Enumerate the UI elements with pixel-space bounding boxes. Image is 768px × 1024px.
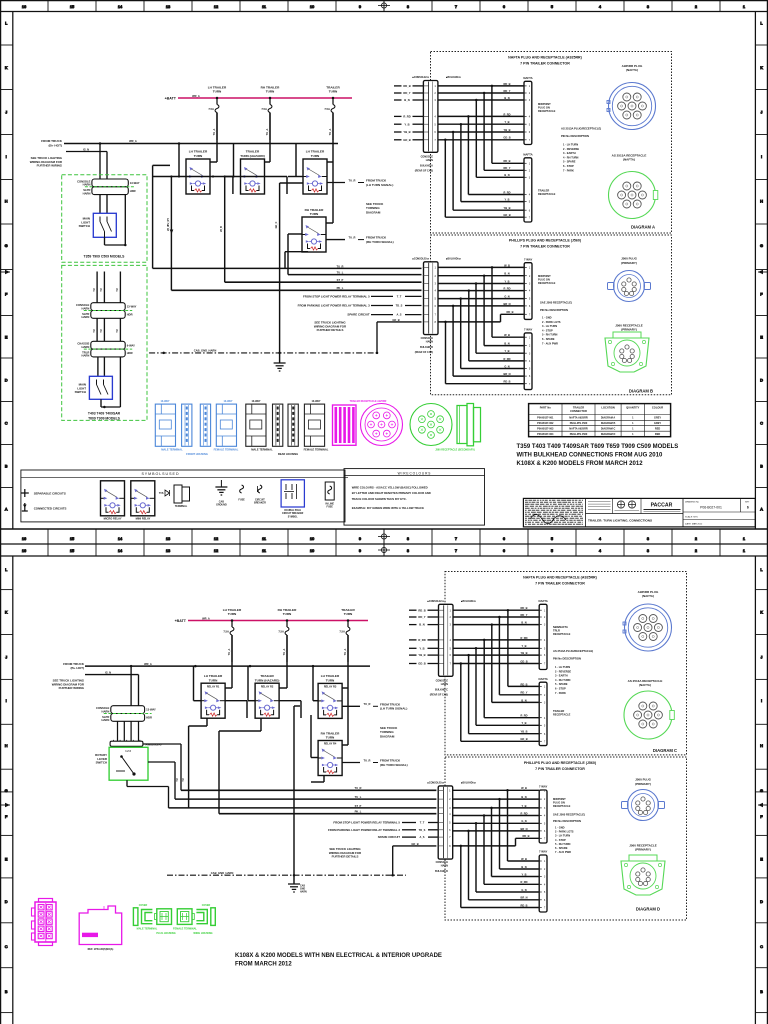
wire s2 bus TU_L [175, 795, 436, 799]
svg-text:R_RD: R_RD [503, 357, 510, 361]
svg-text:PIN No DESCRIPTION: PIN No DESCRIPTION [553, 819, 581, 823]
svg-text:TURN: TURN [228, 612, 237, 616]
wire stub into bulkhead C pin6 [409, 653, 439, 657]
svg-text:CAB_GND_HARN: CAB_GND_HARN [211, 871, 234, 875]
svg-text:A: A [760, 507, 763, 512]
svg-text:SPARE CIRCUIT: SPARE CIRCUIT [347, 313, 370, 317]
connector NAFTA receptacle strip [523, 152, 533, 222]
connector symbols 13way black male [246, 400, 283, 446]
svg-text:TURN (HAZARD): TURN (HAZARD) [255, 678, 280, 682]
fuse F5 7.5A [278, 621, 289, 663]
svg-text:R_RD: R_RD [503, 112, 510, 116]
svg-text:TRACE COLOUR SHOWN THUS R/Y: TRACE COLOUR SHOWN THUS R/Y ETC. [352, 497, 407, 501]
enclosure PHILLIPS connector diagram B [431, 235, 672, 395]
svg-text:7.5A: 7.5A [223, 630, 229, 634]
note NBN receptacle C [553, 625, 571, 636]
svg-text:1: 1 [743, 4, 745, 9]
svg-text:ST_P: ST_P [337, 278, 344, 282]
svg-text:W_B: W_B [521, 857, 527, 861]
svg-text:BR_N: BR_N [520, 827, 527, 831]
svg-text:FURTHER DETAILS: FURTHER DETAILS [317, 328, 344, 332]
node label s2 bus1 [223, 608, 242, 616]
wire relay K4 output [326, 236, 394, 244]
svg-text:TRAILER: TURN LIGHTING, CONNEC: TRAILER: TURN LIGHTING, CONNECTIONS [588, 519, 652, 523]
svg-text:R_RD: R_RD [520, 636, 527, 640]
svg-text:PK_L: PK_L [337, 286, 344, 290]
svg-text:16: 16 [22, 548, 26, 553]
svg-text:2: 2 [695, 548, 697, 553]
svg-text:QUANTITY: QUANTITY [626, 406, 640, 410]
svg-text:E: E [5, 335, 8, 340]
svg-text:15: 15 [70, 548, 74, 553]
svg-text:3 - LH TURN: 3 - LH TURN [542, 324, 557, 328]
svg-text:HDR: HDR [130, 189, 136, 193]
svg-text:CAB: CAB [300, 885, 305, 888]
legend fuse [238, 485, 245, 502]
svg-text:RELAY R1: RELAY R1 [207, 684, 220, 688]
svg-text:DIAGRAM B: DIAGRAM B [629, 389, 653, 394]
svg-text:■BULKHD/xx: ■BULKHD/xx [446, 258, 462, 261]
svg-text:RD_Y: RD_Y [521, 613, 528, 617]
svg-text:FEMALE TERMINAL: FEMALE TERMINAL [304, 448, 329, 452]
svg-text:WING HOUSING: WING HOUSING [193, 932, 212, 935]
connector bulkhead D [437, 786, 452, 859]
wire bus PK_L [171, 286, 421, 290]
svg-text:BR_N: BR_N [503, 302, 510, 306]
svg-text:TERMINAL: TERMINAL [175, 505, 188, 508]
svg-text:16: 16 [22, 4, 26, 9]
svg-text:R_RD: R_RD [520, 811, 527, 815]
svg-text:13-WAY: 13-WAY [146, 708, 156, 712]
svg-text:RED: RED [655, 433, 660, 436]
svg-text:HARN: HARN [102, 718, 110, 722]
svg-text:28_B: 28_B [220, 226, 223, 232]
wire stub into bulkhead A pin2 [394, 91, 423, 95]
svg-text:TURN: TURN [326, 678, 335, 682]
svg-text:DATE: MAR 2012: DATE: MAR 2012 [685, 523, 703, 526]
svg-text:(NAFTA): (NAFTA) [626, 68, 638, 72]
svg-text:FEMALE TERMINAL: FEMALE TERMINAL [173, 928, 197, 931]
svg-text:DIAGRAM: DIAGRAM [380, 734, 395, 738]
svg-text:4 - RH TURN: 4 - RH TURN [563, 155, 579, 159]
connector NAFTA plug strip [523, 76, 533, 145]
svg-text:■CONSOLE/xx: ■CONSOLE/xx [427, 782, 444, 785]
svg-text:HARN: HARN [82, 315, 90, 319]
svg-text:RELAY R3: RELAY R3 [324, 685, 337, 689]
svg-text:PLUG ON: PLUG ON [538, 278, 550, 282]
svg-text:■CONSOLE/xx: ■CONSOLE/xx [412, 76, 429, 79]
svg-text:T359 T403 T409 T409SAR T609 T6: T359 T403 T409 T409SAR T609 T659 T909 C5… [517, 444, 679, 450]
svg-text:3 - LH TURN: 3 - LH TURN [555, 834, 570, 838]
relay K7 LH TRAILER TURN [318, 674, 342, 718]
svg-text:TU_A: TU_A [328, 128, 332, 135]
svg-text:5 - RH TURN: 5 - RH TURN [542, 333, 558, 337]
wires header to switch2 [98, 357, 121, 407]
relay K4 RH TRAILER TURN [302, 208, 326, 252]
svg-text:GD_B: GD_B [403, 138, 411, 142]
svg-text:Y_B: Y_B [504, 279, 509, 283]
note truck lighting sheet1 [30, 156, 63, 168]
svg-text:G: G [5, 788, 8, 793]
legend circuit breaker [254, 485, 266, 505]
svg-text:RECEPTACLE: RECEPTACLE [538, 192, 556, 196]
svg-text:TRAILER: TRAILER [538, 189, 549, 193]
wires header to light switch [100, 195, 125, 245]
svg-text:FROM MARCH 2012: FROM MARCH 2012 [235, 962, 292, 968]
svg-text:IG_N: IG_N [83, 147, 89, 151]
svg-text:A_S: A_S [396, 313, 401, 317]
svg-text:HARN: HARN [102, 709, 110, 713]
svg-text:FROM STOP LIGHT POWER RELAY TE: FROM STOP LIGHT POWER RELAY TERMINAL 5 [333, 821, 400, 825]
svg-text:I: I [6, 154, 7, 159]
svg-text:GD_C: GD_C [275, 221, 278, 228]
svg-text:NAFTA A925RR: NAFTA A925RR [569, 417, 588, 420]
svg-text:R_RD: R_RD [503, 190, 510, 194]
svg-text:HARN: HARN [83, 183, 91, 187]
wire stub A_S [347, 313, 421, 317]
svg-text:B_N: B_N [404, 98, 409, 102]
svg-text:RD_B: RD_B [522, 834, 529, 838]
wire stub into bulkhead C pin5 [409, 646, 439, 650]
svg-text:MINI RELAY: MINI RELAY [136, 516, 151, 520]
svg-text:7.5A: 7.5A [261, 107, 267, 111]
legend diode [159, 490, 170, 496]
svg-text:RD_Y: RD_Y [403, 91, 410, 95]
svg-text:S Y M B O L S U S E D: S Y M B O L S U S E D [141, 472, 178, 476]
net +BATT bus sheet1 [165, 94, 352, 101]
svg-text:BR_N: BR_N [520, 896, 527, 900]
connector green cover right [196, 904, 215, 926]
connector bulkhead A labels [412, 76, 461, 79]
relay K3 LH TRAILER TURN [303, 150, 327, 194]
svg-text:GROUND: GROUND [216, 504, 227, 507]
svg-text:H: H [5, 743, 8, 748]
wire switch2 output [101, 399, 120, 408]
svg-text:P06-B027-003: P06-B027-003 [537, 428, 554, 431]
title NAFTA sheet2 [523, 576, 597, 586]
wire s2 bus TU_R [181, 786, 436, 790]
note trailer receptacle A [538, 189, 556, 197]
svg-text:P06-B027-004: P06-B027-004 [537, 433, 554, 436]
fuse F3 7.5A [324, 98, 335, 140]
svg-text:K: K [5, 609, 8, 614]
svg-text:1 - GND: 1 - GND [542, 316, 552, 320]
svg-text:COVER: COVER [139, 904, 148, 907]
svg-text:MIDPOINT: MIDPOINT [553, 797, 566, 801]
svg-text:COLOUR: COLOUR [652, 406, 663, 410]
wires bulkhead D to connectors [453, 786, 540, 907]
svg-text:Y_B: Y_B [504, 198, 509, 202]
svg-text:RD_B: RD_B [403, 84, 410, 88]
svg-text:7: 7 [455, 4, 457, 9]
svg-text:TU_L: TU_L [337, 271, 344, 275]
svg-text:B_N: B_N [504, 173, 509, 177]
svg-text:(B+ HOT): (B+ HOT) [49, 143, 63, 147]
svg-text:8: 8 [407, 4, 409, 9]
main light switch S1 [79, 213, 117, 237]
svg-text:1 - LH TURN: 1 - LH TURN [563, 143, 578, 147]
svg-text:HDR: HDR [127, 351, 133, 355]
svg-text:2 - PARK LGTS: 2 - PARK LGTS [542, 320, 561, 324]
svg-text:1 - LH TURN: 1 - LH TURN [555, 665, 570, 669]
wire s2 stub T_T [333, 821, 438, 825]
svg-text:EXAMPLE: R/Y GREEN WIRE WITH: EXAMPLE: R/Y GREEN WIRE WITH A YELLOW TR… [352, 506, 424, 510]
connector bulkhead C labels [427, 600, 476, 603]
legend terminal block [174, 485, 190, 508]
svg-text:R_RD: R_RD [520, 714, 527, 718]
svg-text:8: 8 [407, 536, 409, 541]
svg-text:GD_B: GD_B [520, 659, 527, 663]
wire ignition feed sheet2 [85, 670, 139, 674]
svg-text:RD_B: RD_B [503, 159, 510, 163]
pin description list A [561, 126, 601, 172]
svg-text:SWITCH: SWITCH [96, 761, 107, 765]
svg-text:P06-B027-002: P06-B027-002 [537, 422, 554, 425]
svg-text:A: A [5, 507, 8, 512]
svg-text:G: G [760, 243, 763, 248]
rotary lever switch S3 [95, 747, 148, 780]
labels blue connector row [161, 448, 239, 457]
svg-text:I: I [6, 698, 7, 703]
svg-text:3: 3 [647, 548, 649, 553]
wire ground branch to bulkhead [376, 318, 422, 354]
svg-text:G_N: G_N [521, 819, 526, 823]
sheet1 fold arrow right [758, 270, 767, 275]
labels green connector row [137, 928, 213, 935]
wire s2 stub TD_S [328, 828, 438, 832]
sheet2 fold arrow right [758, 803, 767, 808]
svg-text:7.5A: 7.5A [278, 630, 284, 634]
svg-text:(PRIMARY): (PRIMARY) [621, 328, 637, 332]
svg-text:NBN/NAFTA: NBN/NAFTA [553, 625, 568, 629]
svg-text:GD_B: GD_B [520, 737, 527, 741]
svg-text:■CONSOLE/xx: ■CONSOLE/xx [427, 600, 444, 603]
svg-text:B: B [760, 989, 763, 994]
title block frame [523, 498, 755, 527]
svg-text:RELAY R2: RELAY R2 [261, 684, 274, 688]
svg-text:TRAILER RECEPTACLE A925RR: TRAILER RECEPTACLE A925RR [350, 400, 387, 403]
svg-text:RD_Y: RD_Y [418, 615, 425, 619]
svg-text:DIAGRAM B: DIAGRAM B [601, 422, 616, 425]
svg-text:LOCATION: LOCATION [601, 406, 614, 410]
svg-text:FRONT HOUSING: FRONT HOUSING [186, 452, 208, 456]
note bulkhead plug on receptacle [538, 102, 556, 113]
svg-text:TU_R: TU_R [348, 236, 355, 240]
svg-text:J560 RECEPTACLE (SECONDARY): J560 RECEPTACLE (SECONDARY) [435, 449, 475, 452]
svg-text:GD_B: GD_B [503, 136, 510, 140]
wire s2 ground branch [391, 842, 436, 877]
svg-text:T359 T909 C509 MODELS: T359 T909 C509 MODELS [84, 255, 126, 259]
svg-text:MIDPOINT: MIDPOINT [538, 102, 551, 106]
svg-text:Y_B: Y_B [504, 120, 509, 124]
svg-text:2 - PARK LGTS: 2 - PARK LGTS [555, 830, 574, 834]
svg-text:SHT: SHT [745, 502, 750, 504]
caption sheet2 models [235, 953, 442, 968]
svg-text:(REAR OF CAB): (REAR OF CAB) [415, 351, 433, 354]
sheet2 border frame [0, 544, 768, 1024]
wire stub into bulkhead C pin4 [409, 638, 439, 642]
svg-text:B_N: B_N [521, 795, 526, 799]
svg-text:HARN: HARN [441, 683, 448, 686]
svg-text:11: 11 [262, 4, 266, 9]
svg-text:GND: GND [300, 889, 305, 891]
svg-text:K108X & K200 MODELS FROM MARCH: K108X & K200 MODELS FROM MARCH 2012 [517, 461, 644, 467]
label J560 plug [621, 257, 638, 265]
svg-text:B: B [760, 464, 763, 469]
svg-text:RD_B: RD_B [503, 380, 510, 384]
connector J560 plug circle s2 [622, 790, 665, 821]
svg-text:(PRIMARY): (PRIMARY) [621, 261, 637, 265]
svg-text:RECEPTACLE: RECEPTACLE [538, 109, 556, 113]
svg-text:TU_R: TU_R [354, 786, 361, 790]
svg-text:(B+ HOT): (B+ HOT) [71, 666, 85, 670]
note truck turning [366, 202, 384, 214]
svg-text:■BULKHD/xx: ■BULKHD/xx [461, 782, 477, 785]
connector symbols 13way black female [288, 400, 325, 446]
svg-text:TU: TU [116, 329, 119, 332]
svg-text:6 - SPARE: 6 - SPARE [555, 846, 568, 850]
svg-text:RD_Y: RD_Y [504, 166, 511, 170]
connector 7WAY plug strip s2 [538, 785, 547, 843]
svg-text:G: G [5, 243, 8, 248]
label A925RR plug s2 [638, 590, 659, 598]
svg-text:9: 9 [359, 4, 361, 9]
svg-text:RECEPTACLE: RECEPTACLE [553, 632, 571, 636]
wire bus ST_P [225, 278, 422, 282]
svg-text:2 - REVERSE: 2 - REVERSE [555, 669, 571, 673]
svg-text:FUSE: FUSE [238, 499, 245, 502]
wires between headers [93, 318, 121, 341]
wires bulkhead A to trailer plug [438, 82, 524, 217]
svg-text:TU_RY: TU_RY [167, 218, 170, 226]
svg-text:C: C [5, 421, 8, 426]
svg-text:1: 1 [743, 536, 745, 541]
svg-text:HARN: HARN [441, 865, 448, 868]
connector symbols 13way blue female [200, 400, 236, 446]
legend wire colours box [344, 469, 485, 525]
svg-text:Y_B: Y_B [521, 721, 526, 725]
svg-text:(NAFTA): (NAFTA) [642, 594, 654, 598]
fuse F6 7.5A [339, 621, 350, 663]
svg-text:C: C [5, 944, 8, 949]
svg-text:TD_S: TD_S [419, 828, 426, 832]
wires feed to console header sheet2 [131, 666, 138, 706]
legend mini relay [131, 481, 155, 521]
svg-text:TU_R: TU_R [363, 758, 370, 762]
svg-text:7 - AUX PWR: 7 - AUX PWR [555, 850, 571, 854]
svg-text:TU_R: TU_R [363, 702, 370, 706]
svg-text:5 - RH TURN: 5 - RH TURN [555, 842, 571, 846]
wire relay K8 output [342, 758, 408, 766]
wires bulkhead B to connectors [438, 263, 524, 383]
svg-text:B_N: B_N [504, 272, 509, 276]
legend in line fuse [325, 482, 334, 509]
svg-text:E: E [760, 335, 763, 340]
svg-text:DIAGRAM A: DIAGRAM A [601, 417, 616, 420]
svg-text:B_N: B_N [504, 96, 509, 100]
svg-text:K: K [760, 609, 763, 614]
note console harn bulkhead B [415, 337, 434, 354]
connector header console sheet2 [96, 706, 156, 722]
wire ignition feed [66, 147, 107, 151]
svg-text:HARN: HARN [82, 354, 90, 358]
note console harn bulkhead C [430, 680, 449, 697]
svg-text:5: 5 [551, 536, 553, 541]
svg-text:J: J [761, 110, 763, 115]
svg-text:TU_A: TU_A [227, 648, 231, 655]
connector green cover left [133, 904, 152, 926]
wire stub into bulkhead C pin2 [409, 615, 439, 619]
svg-text:K108X & K200 MODELS WITH NBN E: K108X & K200 MODELS WITH NBN ELECTRICAL … [235, 953, 442, 959]
svg-text:TURN: TURN [209, 678, 218, 682]
svg-text:3: 3 [647, 4, 649, 9]
svg-text:HARN: HARN [300, 891, 307, 894]
svg-text:GREY: GREY [654, 422, 661, 425]
sheet2 fold mark top [378, 544, 390, 556]
svg-text:5 - SPARE: 5 - SPARE [563, 160, 576, 164]
connector bulkhead A [423, 81, 438, 153]
svg-text:RD_Y: RD_Y [504, 89, 511, 93]
wire relay K6 loop [219, 635, 301, 814]
svg-text:RD_B: RD_B [520, 903, 527, 907]
svg-text:12: 12 [214, 536, 218, 541]
svg-text:(NAFTA): (NAFTA) [623, 158, 635, 162]
svg-text:B_N: B_N [521, 621, 526, 625]
svg-text:YB_B: YB_B [418, 653, 425, 657]
label AS2513A receptacle s2 [628, 679, 663, 687]
svg-text:Y_B: Y_B [504, 349, 509, 353]
svg-text:COVER: COVER [202, 904, 211, 907]
enclosure NAFTA connector diagram A [431, 52, 672, 234]
svg-text:HARN: HARN [83, 191, 91, 195]
svg-text:Y_B: Y_B [521, 872, 526, 876]
legend separable circuits [21, 489, 66, 497]
svg-text:TD_S: TD_S [396, 304, 403, 308]
wire stub into bulkhead A pin4 [394, 115, 423, 119]
svg-text:(LH TURN SIGNAL): (LH TURN SIGNAL) [380, 707, 407, 711]
pin description list D [553, 813, 585, 855]
title block drawing number [685, 501, 750, 526]
svg-text:E: E [5, 857, 8, 862]
svg-text:(NAFTA): (NAFTA) [639, 683, 651, 687]
legend double pole breaker [281, 480, 304, 519]
svg-text:TU: TU [182, 778, 185, 781]
svg-text:SAE J560 RECEPTACLE): SAE J560 RECEPTACLE) [540, 301, 572, 305]
svg-text:Y_B: Y_B [419, 646, 424, 650]
svg-text:PHILLIPS J560: PHILLIPS J560 [570, 422, 588, 425]
connector header console/sleeper X1 [77, 179, 140, 195]
svg-text:8: 8 [407, 548, 409, 553]
svg-text:WR_A: WR_A [129, 139, 137, 143]
enclosure T359 T909 C509 MODELS [62, 175, 147, 262]
svg-text:5 - SPARE: 5 - SPARE [555, 682, 568, 686]
sheet1 fold mark bottom [378, 529, 390, 544]
svg-text:TURN: TURN [344, 612, 353, 616]
svg-text:PIN No DESCRIPTION: PIN No DESCRIPTION [553, 657, 581, 661]
title PHILLIPS sheet2 [524, 761, 597, 771]
svg-text:1 2 3: 1 2 3 [125, 750, 131, 753]
label AS2513A receptacle [612, 153, 647, 161]
svg-text:5: 5 [551, 548, 553, 553]
svg-text:K: K [5, 65, 8, 70]
svg-text:7: 7 [455, 548, 457, 553]
svg-text:TU_A: TU_A [343, 648, 347, 655]
svg-text:RD_Y: RD_Y [521, 691, 528, 695]
svg-text:RECEPTACLE: RECEPTACLE [538, 281, 556, 285]
relay K6 TRAILER [255, 674, 280, 718]
wire relay K3 output [327, 178, 393, 186]
svg-text:DRAWING No: DRAWING No [685, 501, 700, 504]
